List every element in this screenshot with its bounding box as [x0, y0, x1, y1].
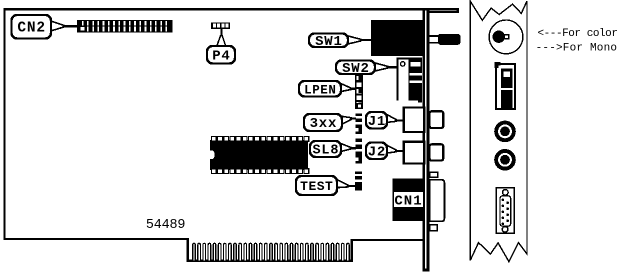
svg-text:CN1: CN1: [394, 193, 422, 209]
svg-text:SL8: SL8: [313, 144, 340, 159]
svg-text:3xx: 3xx: [310, 116, 338, 132]
svg-text:J2: J2: [368, 144, 386, 160]
svg-text:--->For Mono: --->For Mono: [536, 42, 618, 54]
svg-text:CN2: CN2: [17, 20, 46, 36]
svg-text:<---For color: <---For color: [538, 28, 618, 40]
svg-text:SW1: SW1: [315, 34, 343, 50]
svg-text:TEST: TEST: [300, 179, 333, 194]
svg-text:LPEN: LPEN: [304, 83, 336, 97]
svg-text:SW2: SW2: [342, 61, 370, 77]
svg-text:J1: J1: [368, 114, 386, 130]
svg-text:54489: 54489: [146, 218, 186, 233]
svg-text:P4: P4: [212, 48, 230, 64]
